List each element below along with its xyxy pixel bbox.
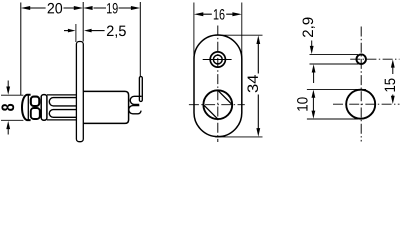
chord lower left	[203, 105, 217, 119]
oval flange outline	[194, 35, 242, 137]
dim text 19	[107, 3, 118, 14]
vertical centerline	[217, 26, 219, 143]
dim text 16	[214, 9, 225, 20]
big hole	[346, 90, 375, 119]
dimension 8 (plunger dia)	[1, 94, 23, 96]
dimension 15	[392, 67, 394, 98]
screw hole inner	[213, 55, 222, 64]
plunger hole circle	[203, 90, 232, 119]
dimension line 20	[30, 7, 76, 9]
collar	[41, 95, 47, 121]
terminal foot tab 1	[130, 96, 141, 104]
extension line flange face	[82, 2, 84, 42]
screw hole h-centerline	[203, 59, 232, 61]
flange plate (side)	[76, 42, 83, 142]
dimension 34	[215, 34, 263, 36]
plunger dome	[22, 95, 31, 120]
plunger hole h-centerline	[189, 104, 245, 106]
extension line left (plunger tip)	[20, 3, 22, 96]
terminal foot tab 2	[129, 106, 141, 114]
chord upper right	[218, 90, 232, 104]
terminal blade	[139, 77, 142, 102]
dimension 2,9	[310, 53, 359, 55]
dim text 10 (rotated)	[297, 97, 308, 110]
dim text 8 (rotated)	[1, 104, 14, 111]
shaft outer lines	[47, 94, 77, 96]
window 2	[31, 108, 40, 119]
dimension line 16	[203, 13, 233, 15]
dimension 10	[307, 88, 366, 90]
extension lines 16	[193, 3, 195, 60]
window 1	[31, 97, 40, 106]
shaft slot 1	[49, 98, 76, 106]
dimension line 19	[94, 7, 132, 9]
screw hole outer	[210, 52, 225, 67]
plunger head line	[27, 95, 29, 120]
shaft slot 2	[49, 110, 76, 118]
vertical centerline	[360, 27, 362, 142]
switch body	[83, 91, 128, 123]
dim text 34 (rotated)	[247, 75, 258, 92]
big hole h-centerline	[333, 103, 400, 105]
small hole	[356, 54, 366, 64]
dimension 2,5 (flange thickness)	[75, 24, 77, 42]
dim text 15 (rotated)	[385, 78, 395, 91]
dim text 20	[48, 3, 63, 14]
dim text 2,5	[107, 26, 126, 38]
extension line terminal end	[139, 2, 141, 77]
dim text 2,9 (rotated)	[303, 18, 315, 38]
small hole h-centerline	[350, 58, 399, 60]
